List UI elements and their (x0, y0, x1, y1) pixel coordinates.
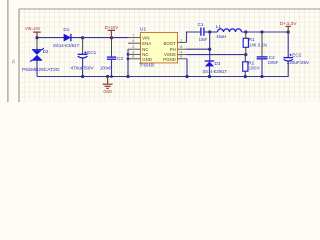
node junction at D+24V / C3 (110, 36, 113, 39)
svg-text:C1: C1 (198, 22, 204, 27)
svg-text:14K 0.1%: 14K 0.1% (249, 42, 267, 47)
svg-text:GND: GND (142, 57, 152, 62)
sheet border lines (frame) (8, 0, 320, 102)
svg-text:ENA: ENA (142, 41, 151, 46)
U1 pin 8 PH (170, 44, 187, 52)
svg-text:D2: D2 (43, 49, 49, 54)
power port D+3.3V (280, 21, 298, 32)
svg-text:TPS5430: TPS5430 (139, 62, 155, 67)
svg-text:100nF: 100nF (100, 65, 112, 70)
wire PGND drop (186, 59, 188, 77)
node junction D3 bottom (208, 75, 211, 78)
svg-text:SS14-E3/61T: SS14-E3/61T (53, 43, 79, 48)
U1 pin 5 ENA (128, 38, 151, 46)
wire NC/GND bracket (127, 49, 129, 76)
svg-text:VIN=24V: VIN=24V (25, 26, 41, 32)
node junction D+3.3V / EC2 (287, 30, 290, 33)
svg-text:VIN: VIN (142, 35, 149, 40)
svg-text:D1: D1 (63, 27, 69, 32)
U1 pin 2 NC (128, 44, 149, 52)
node junction R1/R2/VSNS (244, 53, 247, 56)
capacitor C1 (198, 22, 208, 42)
power port D+24V (105, 25, 119, 38)
resistor R2 (243, 55, 260, 77)
diode D3 (203, 61, 228, 77)
node junction EC1 bottom (81, 75, 84, 78)
node junction at EC1 (81, 36, 84, 39)
svg-text:PGND: PGND (163, 57, 175, 62)
capacitor EC2 (283, 32, 310, 65)
node junction PH / D3 (208, 48, 211, 51)
svg-text:C3: C3 (117, 56, 123, 61)
wire L1 to output port (242, 31, 289, 33)
U1 pin 3 NC (128, 49, 149, 57)
svg-text:L1: L1 (216, 24, 222, 29)
node junction PH column top (208, 30, 211, 33)
wire C1 to L1 (204, 31, 218, 33)
svg-text:D3: D3 (215, 61, 221, 66)
wire BOOT riser (187, 32, 201, 42)
wire VIN junction to D1 anode (37, 37, 64, 39)
U1 pin 9 PGND (163, 54, 187, 63)
wire PH node (187, 32, 210, 61)
inductor L1 (216, 24, 242, 39)
U1 pin 1 BOOT (164, 37, 187, 46)
svg-text:8.2K/1%: 8.2K/1% (248, 66, 260, 71)
node junction GND symbol (106, 75, 109, 78)
wire VSNS to divider (187, 54, 246, 56)
svg-text:15uH: 15uH (216, 34, 226, 39)
node junction NC pin3 (127, 53, 130, 56)
node junction C3 bottom (110, 75, 113, 78)
resistor R1 (243, 32, 267, 55)
diode D1 (53, 27, 79, 48)
power port VIN=24V (25, 26, 41, 37)
svg-text:EC2: EC2 (292, 52, 301, 57)
svg-text:P6SMB28CAT3G: P6SMB28CAT3G (22, 67, 60, 73)
svg-text:U1: U1 (140, 27, 146, 33)
svg-text:EC1: EC1 (87, 50, 96, 55)
node junction bracket bottom (126, 75, 129, 78)
svg-text:100nF: 100nF (268, 60, 279, 65)
node junction C2 top (260, 30, 263, 33)
ground GND symbol (103, 77, 113, 94)
svg-text:BOOT: BOOT (164, 41, 177, 46)
node junction at VIN port / D2 (35, 36, 38, 39)
capacitor EC1 (71, 38, 97, 77)
capacitor C3 (100, 38, 123, 77)
U1 pin 6 GND (128, 54, 152, 63)
node junction R2 bottom (244, 75, 247, 78)
svg-text:GND: GND (103, 89, 112, 94)
TVS diode D2 (22, 38, 60, 77)
svg-text:220uF/25V: 220uF/25V (287, 60, 310, 65)
node junction R1 top (244, 30, 247, 33)
op-amp U1 TPS5430 body (139, 27, 178, 68)
svg-text:10nF: 10nF (199, 37, 208, 42)
svg-text:A: A (12, 60, 16, 66)
U1 pin 7 VIN (128, 33, 149, 41)
node junction GND pin6 (127, 57, 130, 60)
wire ground rail (37, 61, 288, 76)
U1 pin 4 VSNS (164, 50, 187, 58)
wire D1 cathode to VIN pin (72, 37, 129, 39)
capacitor C2 (257, 32, 279, 77)
node junction C2 bottom (260, 75, 263, 78)
svg-text:SS14-E3/61T: SS14-E3/61T (203, 69, 228, 74)
node junction PGND bottom (185, 75, 188, 78)
